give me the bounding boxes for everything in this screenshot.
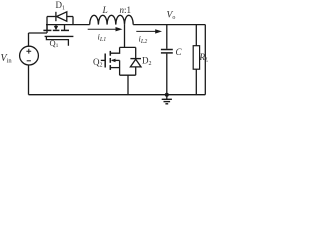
wire Vin bottom lead: [28, 65, 30, 95]
wire inductor tap down: [124, 25, 126, 48]
wire rail coil to output corner: [133, 24, 205, 26]
current arrow iL2: [136, 30, 156, 32]
Q2 gate lead: [101, 59, 105, 61]
svg-text:RL: RL: [199, 52, 210, 64]
ground junction dot: [165, 93, 169, 97]
voltage source Vin: [20, 46, 39, 65]
Vin plus sign: [26, 49, 31, 61]
svg-text:D2: D2: [142, 56, 152, 68]
wire node A vertical: [46, 17, 48, 34]
svg-text:C: C: [176, 47, 183, 57]
Vin minus sign: [27, 60, 31, 62]
wire join down to bottom rail: [127, 75, 129, 95]
Q1 arrow: [55, 25, 57, 27]
svg-text:iL1: iL1: [98, 32, 107, 44]
Q1 channel bar right: [61, 29, 69, 31]
Q1 channel bar left: [43, 29, 51, 31]
wire bottom rail: [29, 94, 206, 96]
svg-text:D1: D1: [56, 0, 66, 12]
wire Vin top lead: [28, 33, 30, 46]
diode D2: [135, 47, 137, 58]
svg-text:n:1: n:1: [120, 5, 132, 15]
svg-text:L: L: [102, 6, 108, 16]
wire tap horizontal to Q2 drain and D2 cathode: [120, 46, 136, 48]
current arrow iL1: [88, 28, 117, 30]
Q2 drain lead: [110, 47, 119, 53]
capacitor C: [166, 25, 168, 49]
svg-text:Vin: Vin: [1, 53, 13, 65]
Q2 channel segment top: [109, 51, 111, 56]
inductor L coil (tapped, n:1): [90, 15, 133, 24]
resistor RL: [195, 25, 197, 46]
wire right edge vertical: [204, 25, 206, 95]
Q2 bulk arrow: [112, 59, 120, 61]
svg-text:Vo: Vo: [167, 11, 176, 22]
wire Q2/D2 bottom join: [120, 74, 136, 76]
wire top rail A to coil: [46, 24, 90, 26]
wire Vin to node A: [29, 32, 48, 34]
Q2 source vertical: [119, 60, 121, 75]
Q2 channel segment bottom: [109, 65, 111, 70]
Q1 drain stub: [46, 25, 48, 30]
Q1 gate lead: [46, 36, 68, 45]
svg-text:Q2: Q2: [93, 57, 103, 69]
svg-text:iL2: iL2: [139, 34, 148, 46]
wire D1 right vertical: [72, 17, 74, 25]
Q2 source lead: [110, 67, 119, 69]
Q1 source stub: [64, 25, 66, 30]
Q2 gate bar: [104, 54, 106, 68]
ground: [166, 95, 168, 99]
Q1 channel bar mid: [53, 29, 60, 31]
Q2 channel segment middle: [109, 58, 111, 63]
Q1 gate bar: [45, 35, 74, 37]
diode D1: [47, 16, 55, 18]
